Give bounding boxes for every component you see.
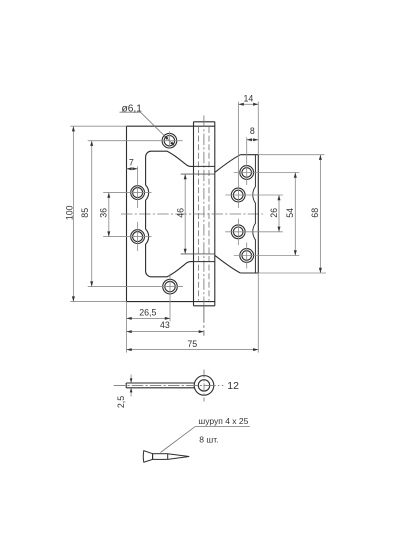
svg-text:14: 14 xyxy=(244,94,254,104)
svg-text:26: 26 xyxy=(269,208,279,218)
svg-text:43: 43 xyxy=(160,320,170,330)
svg-text:шуруп 4 x 25: шуруп 4 x 25 xyxy=(198,416,248,426)
svg-text:54: 54 xyxy=(285,208,295,218)
svg-text:26,5: 26,5 xyxy=(139,307,156,317)
svg-text:85: 85 xyxy=(80,208,90,218)
svg-text:46: 46 xyxy=(175,208,185,218)
svg-text:7: 7 xyxy=(129,158,134,168)
svg-text:100: 100 xyxy=(64,205,74,220)
svg-text:2,5: 2,5 xyxy=(116,396,126,408)
svg-text:75: 75 xyxy=(187,339,197,349)
svg-text:8: 8 xyxy=(250,126,255,136)
svg-text:36: 36 xyxy=(99,208,109,218)
svg-text:8 шт.: 8 шт. xyxy=(199,434,218,444)
svg-text:68: 68 xyxy=(310,208,320,218)
svg-text:12: 12 xyxy=(227,380,239,392)
svg-text:ø6,1: ø6,1 xyxy=(122,103,143,114)
